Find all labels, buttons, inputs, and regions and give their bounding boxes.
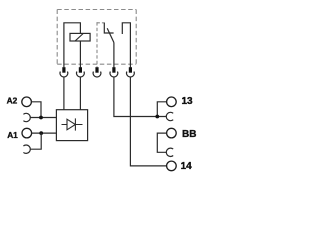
wire terminal 4 down to 13 net (114, 77, 167, 117)
svg-text:BB: BB (182, 129, 196, 140)
wire A1 junction down to socket (30, 133, 41, 149)
terminal pin 4 (112, 67, 115, 73)
terminal socket 4 (110, 72, 118, 78)
socket 13 (166, 112, 173, 120)
wire coil bottom to terminal 2 (79, 41, 81, 67)
terminal circle 14 (167, 161, 177, 171)
wire terminal 5 down to 14 net (130, 77, 166, 166)
wire A2 socket to box (30, 117, 57, 119)
wire terminal 2 to suppressor box (79, 77, 81, 110)
svg-text:A1: A1 (7, 130, 18, 140)
contact blade (107, 28, 114, 42)
socket A1 (23, 145, 30, 153)
terminal socket 5 (126, 72, 134, 78)
terminal circle BB (167, 128, 177, 138)
relay coil K1 (70, 33, 90, 41)
wire A1 circle to box (32, 132, 57, 134)
bracket BB (157, 133, 167, 152)
wire terminal 1 to suppressor box (63, 77, 65, 110)
terminal pin 3 (95, 67, 98, 73)
terminal socket 2 (77, 72, 85, 78)
diode D1 triangle (67, 119, 75, 130)
junction 13 (155, 115, 159, 119)
junction A1 (39, 131, 43, 135)
svg-text:13: 13 (182, 96, 194, 107)
contact fixed hook from terminal 5 (122, 23, 130, 68)
diode D1 cathode bar (74, 118, 76, 130)
bracket 13 (157, 102, 166, 117)
socket BB (166, 148, 173, 156)
wire coil loop left (terminal 1 up and across) (64, 23, 81, 68)
terminal circle A1 (22, 128, 32, 138)
terminal pin 5 (129, 67, 132, 73)
junction A2 (39, 116, 43, 120)
relay enclosure dashed box (57, 9, 136, 11)
dashed link terminal 3 to contact (96, 22, 98, 67)
wire A2 circle to junction (31, 102, 41, 118)
terminal circle A2 (22, 97, 32, 107)
suppressor box (56, 110, 87, 141)
diode D1 wire (62, 124, 83, 126)
svg-text:14: 14 (181, 161, 193, 172)
terminal socket 3 (93, 72, 101, 78)
terminal circle 13 (167, 97, 177, 107)
terminal pin 1 (62, 67, 65, 73)
terminal socket 1 (60, 72, 68, 78)
terminal pin 2 (79, 67, 82, 73)
contact fixed L (104, 23, 113, 33)
coil diagonal (75, 34, 83, 41)
wire blade to terminal 4 (113, 43, 115, 68)
socket A2 (23, 113, 30, 121)
svg-text:A2: A2 (7, 96, 18, 106)
